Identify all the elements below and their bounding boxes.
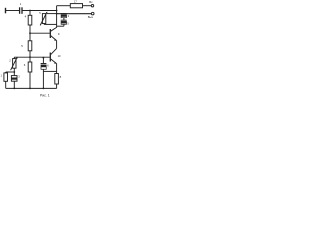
svg-text:Рис. 1: Рис. 1 [40, 94, 50, 98]
wire R8 to rail [56, 84, 58, 88]
wire Q1 emitter to Q2 collector [56, 41, 58, 49]
wire pot2 top lead [13, 57, 15, 58]
resistor R8 emitter [55, 74, 59, 85]
node bus-cap [56, 13, 58, 15]
wire R2 to node57 [29, 51, 31, 57]
wire R3 to rail [29, 72, 31, 88]
wire pot2 bottom lead [13, 68, 15, 75]
node bus-main [56, 10, 58, 12]
svg-text:5: 5 [21, 44, 23, 48]
input terminal [5, 8, 7, 14]
resistor R7 [70, 4, 82, 8]
svg-text:1: 1 [20, 2, 22, 6]
svg-text:10: 10 [58, 54, 61, 58]
bus vertical collector line [56, 6, 58, 28]
svg-text:3: 3 [18, 75, 20, 79]
node base2 junction [29, 56, 31, 58]
wire out2 [57, 13, 92, 15]
capacitor C3 base bypass [41, 57, 47, 89]
resistor R2 [28, 41, 32, 51]
node C3 rail [43, 88, 45, 90]
wire node57 down to R3 [29, 57, 31, 62]
wire C3 to emitter [43, 70, 56, 72]
wire pot bottom to bus [43, 23, 45, 26]
transistor Q1 [50, 27, 57, 40]
wire pot top to bus [47, 13, 57, 15]
svg-text:9: 9 [58, 32, 60, 36]
svg-text:8: 8 [60, 75, 62, 79]
wire junction to R left [6, 71, 15, 73]
svg-text:6: 6 [24, 63, 26, 67]
terminal out2 [91, 12, 94, 15]
capacitor C2 boxed [11, 76, 17, 82]
wire C5 to bus [63, 24, 65, 26]
svg-text:3: 3 [68, 14, 70, 18]
resistor R left [4, 73, 8, 81]
svg-text:1: 1 [1, 74, 3, 78]
wire R left to rail [5, 81, 7, 88]
wire base node down to R2 [29, 33, 31, 41]
transistor Q2 [50, 48, 57, 63]
node pot2 bottom junction [13, 71, 15, 73]
node main-R1 junction [29, 10, 31, 12]
wire C2 to rail [13, 81, 15, 88]
node Q1 base junction [29, 32, 31, 34]
wire input to C1 [6, 10, 20, 12]
ground rail [6, 87, 57, 89]
svg-text:Вых: Вых [88, 15, 94, 19]
node C2 rail [13, 88, 15, 90]
wire R7 to out1 [83, 5, 92, 7]
wire R1 to base node [29, 25, 31, 33]
svg-text:5: 5 [39, 11, 41, 15]
wire base node to Q1 [30, 32, 50, 34]
top rail wire [57, 5, 71, 7]
capacitor C1 [20, 7, 22, 14]
capacitor C4 upper plate pair [61, 14, 67, 18]
resistor R1 [28, 15, 32, 25]
wire C1 to bus [22, 10, 56, 12]
svg-text:5: 5 [67, 22, 69, 26]
wire node57 to Q2 base [14, 56, 50, 58]
node R3 rail [29, 88, 31, 90]
potentiometer R2b bottom-left [11, 57, 18, 70]
svg-text:4: 4 [25, 14, 27, 18]
terminal out1 [91, 5, 93, 7]
svg-text:6: 6 [47, 63, 49, 67]
svg-text:Вх: Вх [89, 0, 93, 4]
wire C4 to C5 [63, 18, 65, 21]
wire Q2 emitter down [56, 64, 58, 74]
svg-text:2: 2 [9, 58, 11, 62]
capacitor C5 lower plate pair [61, 20, 67, 24]
potentiometer R5 top [40, 12, 47, 26]
wire junction to R1 [29, 11, 31, 16]
resistor R3 [28, 62, 32, 72]
